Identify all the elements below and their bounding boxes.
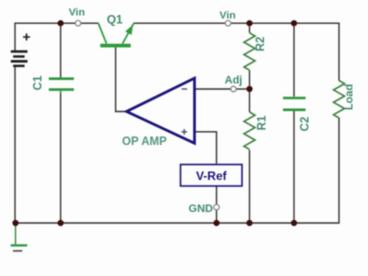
wire: battery - down left rail	[14, 67, 16, 223]
junction: Adj divider	[246, 86, 252, 92]
V-Ref block	[181, 165, 243, 187]
label Load	[343, 84, 355, 110]
wire: Adj terminal to divider junction	[236, 88, 249, 90]
label Vin input	[69, 7, 85, 19]
svg-text:R2: R2	[255, 37, 267, 52]
junction: R2 top	[246, 20, 252, 26]
svg-text:Load: Load	[343, 84, 355, 110]
wire: R1 bottom lead to bottom rail	[249, 150, 251, 223]
svg-text:V-Ref: V-Ref	[196, 169, 228, 183]
label R2	[255, 37, 267, 52]
capacitor C2	[283, 98, 306, 110]
wire: GND terminal to bottom rail	[216, 210, 218, 223]
junction: ground tap	[12, 220, 18, 226]
svg-text:OP AMP: OP AMP	[122, 136, 167, 148]
wire: V-Ref bottom to GND terminal	[216, 186, 218, 204]
wire: C1 branch top	[60, 23, 62, 77]
label OP AMP	[122, 136, 167, 148]
wire: battery + to top rail to Vin node	[15, 23, 75, 51]
wire: op-amp plus input to V-Ref top	[195, 132, 217, 164]
svg-text:Adj: Adj	[225, 75, 243, 87]
resistor R2	[244, 23, 255, 89]
svg-text:R1: R1	[257, 115, 269, 130]
svg-text:C2: C2	[299, 117, 311, 132]
svg-text:C1: C1	[33, 75, 45, 90]
junction: C2 bottom	[291, 220, 297, 226]
transistor Q1	[98, 23, 134, 45]
node Adj terminal	[231, 86, 236, 91]
label Adj	[225, 75, 243, 87]
wire: Vin terminal to Q1 collector	[81, 22, 99, 24]
resistor Load	[334, 81, 345, 118]
label R1	[257, 115, 269, 130]
svg-text:Vin: Vin	[220, 10, 236, 22]
junction: GND bottom	[213, 220, 219, 226]
junction: C2 top	[291, 20, 297, 26]
junction: R1 bottom	[246, 220, 252, 226]
wire: output rail to top-right corner down to Load	[231, 23, 339, 80]
wire: op-amp output to Q1 base	[116, 47, 127, 111]
node Vin (input terminal)	[75, 21, 80, 26]
wire: C1 branch bottom	[60, 91, 62, 223]
junction: C1 top	[58, 20, 64, 26]
svg-text:Vin: Vin	[69, 7, 85, 19]
svg-text:Q1: Q1	[107, 12, 123, 26]
label C1	[33, 75, 45, 90]
label Q1	[107, 12, 123, 26]
label C2	[299, 117, 311, 132]
wire: bottom rail and right rail up to Load	[15, 118, 339, 224]
battery	[11, 34, 30, 66]
label GND	[189, 203, 214, 215]
junction: C1 bottom	[58, 220, 64, 226]
wire: op-amp minus input to Adj terminal	[195, 88, 231, 90]
svg-text:GND: GND	[189, 203, 214, 215]
label Vin output	[220, 10, 236, 22]
resistor R1	[244, 89, 255, 149]
node Vin (output side terminal)	[225, 21, 230, 26]
wire: Q1 emitter to output Vin terminal	[134, 22, 226, 24]
capacitor C1	[49, 77, 74, 94]
ground	[11, 223, 28, 251]
wire: C2 branch top	[293, 23, 295, 96]
node GND terminal	[214, 205, 219, 210]
op-amp U1	[127, 78, 195, 143]
wire: C2 branch bottom	[293, 111, 295, 223]
